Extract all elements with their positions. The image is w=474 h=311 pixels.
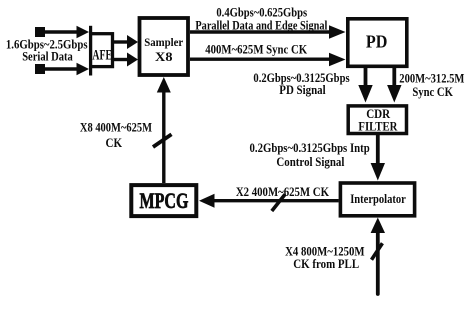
- svg-text:Sampler: Sampler: [144, 35, 184, 49]
- block Interpolator: [340, 183, 414, 216]
- svg-text:PD: PD: [366, 32, 388, 52]
- label: X4 800M~1250M CK from PLL: [285, 244, 365, 270]
- wire: serial data in+: [40, 26, 89, 38]
- block AFE: [91, 26, 113, 76]
- label: X8 400M~625M CK: [80, 120, 153, 149]
- label: 0.4Gbps~0.625Gbps Parallel Data and Edge Signal: [195, 5, 328, 32]
- label: X2 400M~625M CK: [236, 185, 330, 199]
- svg-text:Sync CK: Sync CK: [412, 85, 453, 99]
- label: 400M~625M Sync CK: [205, 42, 307, 56]
- wire: parallel data and edge signal: [190, 25, 346, 38]
- wire: sync CK down (right): [387, 67, 401, 103]
- svg-text:0.4Gbps~0.625Gbps: 0.4Gbps~0.625Gbps: [216, 5, 307, 19]
- label: 200M~312.5M Sync CK: [399, 71, 465, 99]
- svg-text:X8: X8: [155, 50, 173, 64]
- svg-text:Parallel Data and Edge Signal: Parallel Data and Edge Signal: [195, 19, 328, 33]
- block Sampler X8: [140, 18, 189, 75]
- input terminal square bottom: [35, 64, 45, 74]
- wire: PD signal down (left): [358, 67, 372, 103]
- label: 1.6Gbps~2.5Gbps Serial Data: [6, 37, 88, 63]
- block PD: [348, 19, 407, 67]
- wire: AFE to Sampler bottom: [114, 53, 139, 67]
- wire: X4 CK from PLL (into Interpolator): [371, 218, 385, 295]
- input terminal square top: [35, 27, 45, 37]
- svg-text:FILTER: FILTER: [358, 119, 397, 134]
- svg-text:CK: CK: [106, 136, 123, 150]
- svg-text:Serial Data: Serial Data: [22, 50, 73, 64]
- svg-text:PD Signal: PD Signal: [279, 83, 326, 97]
- svg-text:0.2Gbps~0.3125Gbps Intp: 0.2Gbps~0.3125Gbps Intp: [250, 141, 370, 155]
- svg-text:Interpolator: Interpolator: [350, 192, 406, 206]
- svg-text:MPCG: MPCG: [140, 188, 189, 213]
- svg-text:X2 400M~625M CK: X2 400M~625M CK: [236, 185, 330, 199]
- wire: X8 400M~625M CK (MPCG to Sampler): [153, 77, 172, 183]
- svg-text:Control Signal: Control Signal: [276, 155, 345, 169]
- wire: intp control signal: [371, 135, 385, 181]
- svg-text:200M~312.5M: 200M~312.5M: [399, 71, 465, 85]
- wire: 400M~625M sync CK to PD: [190, 53, 346, 66]
- wire: AFE to Sampler top: [114, 35, 139, 49]
- block CDR FILTER: [348, 106, 406, 134]
- wire: serial data in-: [40, 63, 89, 75]
- label: 0.2Gbps~0.3125Gbps Intp Control Signal: [250, 141, 370, 169]
- svg-text:CK from PLL: CK from PLL: [293, 257, 359, 271]
- block MPCG: [131, 185, 196, 216]
- svg-text:X8 400M~625M: X8 400M~625M: [80, 120, 153, 134]
- svg-text:400M~625M Sync CK: 400M~625M Sync CK: [205, 42, 307, 56]
- svg-text:AFE: AFE: [92, 48, 112, 64]
- wire: X2 400M~625M CK (Interpolator to MPCG): [199, 194, 339, 211]
- label: 0.2Gbps~0.3125Gbps PD Signal: [253, 71, 349, 97]
